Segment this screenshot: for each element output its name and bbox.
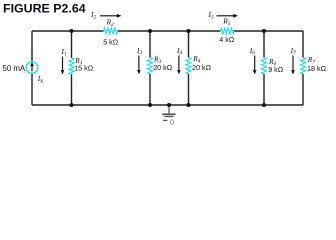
current source I_S 50 mA [26, 62, 38, 74]
resistor R2 zigzag [104, 28, 118, 34]
svg-text:R2: R2 [106, 17, 115, 27]
current arrow I3 [138, 56, 140, 71]
resistor R6 zigzag [262, 58, 267, 75]
current arrow I4 [178, 56, 180, 71]
svg-text:FIGURE P2.64: FIGURE P2.64 [3, 1, 86, 15]
wire R1 branch lower [71, 75, 73, 106]
wire R6 branch upper [263, 31, 265, 58]
svg-text:4 kΩ: 4 kΩ [219, 35, 235, 44]
wire top-right segment [234, 30, 304, 32]
svg-text:I3: I3 [136, 46, 142, 56]
svg-text:I5: I5 [208, 10, 214, 20]
svg-text:I4: I4 [176, 46, 182, 56]
svg-text:50 mA: 50 mA [3, 64, 26, 73]
current arrow I7 [292, 56, 294, 71]
node dot R4 bottom [187, 103, 191, 107]
svg-text:I7: I7 [290, 46, 296, 56]
wire R6 branch lower [263, 74, 265, 105]
wire R7 branch lower [302, 74, 304, 105]
svg-text:15 kΩ: 15 kΩ [74, 64, 94, 73]
wire R1 branch upper [71, 31, 73, 58]
wire R3 branch lower [149, 74, 151, 105]
ground bar 1 [162, 113, 175, 115]
wire top-left segment [32, 30, 104, 32]
node dot R6 top [262, 29, 266, 33]
svg-text:R5: R5 [222, 16, 231, 26]
node dot R1 top [70, 29, 74, 33]
svg-text:0: 0 [170, 117, 174, 126]
resistor R4 zigzag [186, 58, 191, 75]
node dot R1 bottom [70, 103, 74, 107]
current arrow I6 [254, 56, 256, 71]
resistor R5 zigzag [221, 28, 235, 34]
wire left vertical lower [31, 73, 33, 105]
svg-text:I2: I2 [90, 10, 96, 20]
current arrow I5 [217, 15, 235, 17]
wire bottom [32, 104, 303, 106]
wire R3 branch upper [149, 31, 151, 58]
svg-text:9 kΩ: 9 kΩ [268, 65, 284, 74]
wire R4 branch upper [188, 31, 190, 58]
resistor R7 zigzag [301, 58, 306, 75]
resistor R3 zigzag [148, 58, 153, 75]
resistor R1 zigzag [69, 58, 74, 75]
svg-text:I6: I6 [249, 46, 255, 56]
ground bar 3 [163, 119, 167, 121]
svg-text:IS: IS [37, 74, 43, 84]
ground bar 2 [164, 116, 173, 118]
svg-text:20 kΩ: 20 kΩ [192, 63, 212, 72]
node dot R6 bottom [262, 103, 266, 107]
current arrow I1 [62, 57, 64, 71]
wire R7 branch upper (right edge) [302, 31, 304, 58]
node dot ground [167, 103, 171, 107]
wire R4 branch lower [188, 74, 190, 105]
svg-text:5 kΩ: 5 kΩ [103, 37, 119, 46]
current arrow I2 [100, 15, 118, 17]
svg-text:I1: I1 [61, 47, 67, 57]
ground node stub [168, 105, 170, 114]
node dot R4 top [187, 29, 191, 33]
svg-text:18 kΩ: 18 kΩ [307, 64, 327, 73]
wire left vertical upper [31, 31, 33, 62]
svg-text:20 kΩ: 20 kΩ [153, 63, 173, 72]
wire top-middle segment [118, 30, 221, 32]
node dot R3 top [148, 29, 152, 33]
node dot R3 bottom [148, 103, 152, 107]
